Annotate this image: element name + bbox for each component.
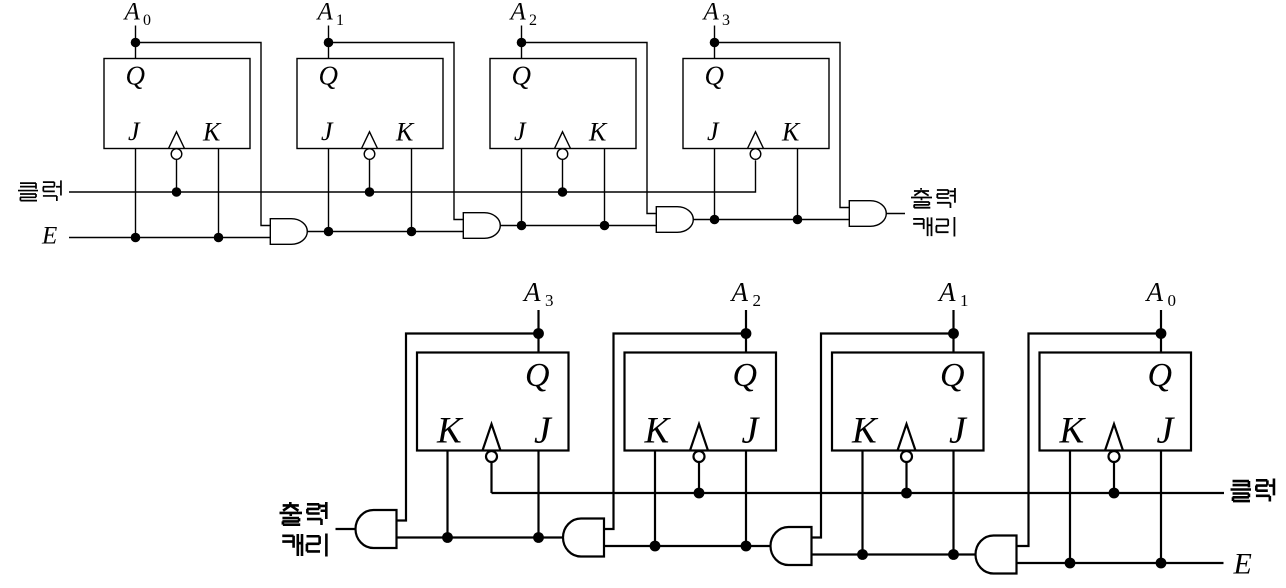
junction J input FF1 (top row) [324,227,334,237]
svg-text:K: K [436,411,464,452]
AND gate B3 (bottom row, mirrored) [771,527,812,565]
AND gate B1 (bottom row, mirrored) [356,510,397,548]
junction K input FF A2 (bottom row) [650,541,661,552]
clock bubble of FF2 (top row) [557,149,568,160]
flip-flop FF A3 box (bottom row) [417,353,569,451]
wire clock terminal up to FF A3 bubble (bottom row) [490,462,492,493]
svg-text:1: 1 [960,291,969,310]
flip-flop FF A2 box (bottom row) [625,353,777,451]
node A3 junction (bottom row) [533,328,544,339]
wire A1 output stub (bottom row) [952,310,954,353]
svg-text:Q: Q [733,357,758,394]
junction clock at FF2 bubble [558,187,568,197]
junction J input FF0 (top row) [131,233,141,243]
clock bubble of FF A0 (bottom row) [1109,451,1120,462]
wire clock line (top row) [69,160,756,192]
junction K input FF3 (top row) [793,215,803,225]
node A1 junction (top row) [324,38,334,48]
svg-text:A: A [123,0,141,26]
clock edge triangle of FF A1 (bottom row) [898,424,916,451]
svg-text:J: J [128,117,141,146]
wire J input column FF A0 (bottom row) [1160,451,1162,564]
AND gate B2 (bottom row, mirrored) [563,519,604,557]
wire K input column FF A0 (bottom row) [1069,451,1071,564]
junction K input FF0 (top row) [214,233,224,243]
svg-text:J: J [514,117,527,146]
wire K input column FF0 (top row) [218,149,220,238]
svg-text:Q: Q [1148,357,1173,394]
junction clock at FF0 bubble [172,187,182,197]
wire J input column FF A3 (bottom row) [537,451,539,538]
svg-text:K: K [851,411,879,452]
wire K input column FF A3 (bottom row) [446,451,448,538]
svg-text:Q: Q [705,61,725,91]
wire Q feedback FF A2 to AND gate B2 (bottom row) [604,334,746,530]
label 캐리 (carry, top-right) [913,217,931,236]
label 출력 (output, top-right) [911,188,932,208]
svg-text:A: A [1145,277,1164,307]
svg-text:Q: Q [126,61,146,91]
wire J input column FF3 (top row) [714,149,716,220]
svg-text:J: J [1157,410,1176,452]
wire Q feedback FF2 to AND gate 3 (top row) [522,43,657,214]
svg-text:A: A [316,0,334,26]
wire A3 output stub (bottom row) [537,310,539,353]
node A3 junction (top row) [710,38,720,48]
wire A0 output stub (top row) [135,26,137,59]
svg-text:J: J [321,117,334,146]
clock edge triangle of FF A0 (bottom row) [1105,424,1123,451]
wire A0 output stub (bottom row) [1160,310,1162,353]
svg-text:K: K [644,411,672,452]
wire G2 output to G3 [500,225,656,227]
wire E line (bottom row) [1017,562,1224,564]
clock edge triangle of FF A2 (bottom row) [690,424,708,451]
svg-text:A: A [509,0,527,26]
AND gate G3 (top row) [656,207,693,233]
wire A2 output stub (top row) [521,26,523,59]
wire J input column FF A2 (bottom row) [745,451,747,547]
svg-text:Q: Q [525,357,550,394]
wire J input column FF0 (top row) [135,149,137,238]
wire Q feedback FF3 to AND gate 4 (top row) [715,43,850,208]
wire G1 output to G2 [307,231,463,233]
svg-text:3: 3 [722,12,730,29]
clock edge triangle of FF2 (top row) [555,132,571,149]
svg-text:K: K [588,118,608,147]
svg-text:Q: Q [512,61,532,91]
wire bubble of FF A1 to clock line [905,462,907,493]
wire Q feedback FF A1 to AND gate B3 (bottom row) [812,334,954,538]
svg-text:A: A [522,277,541,307]
flip-flop FF A1 box (bottom row) [832,353,984,451]
node A1 junction (bottom row) [948,328,959,339]
clock edge triangle of FF3 (top row) [748,132,764,149]
junction J input FF3 (top row) [710,215,720,225]
junction J input FF A3 (bottom row) [533,532,544,543]
clock bubble of FF A2 (bottom row) [694,451,705,462]
flip-flop FF1 box (top row) [297,59,443,149]
junction clock at FF A0 bubble [1109,488,1120,499]
wire J input column FF1 (top row) [328,149,330,232]
svg-text:Q: Q [319,61,339,91]
clock bubble of FF0 (top row) [171,149,182,160]
clock bubble of FF A3 (bottom row) [486,451,497,462]
wire B2 output to B1 [397,536,564,538]
junction K input FF2 (top row) [600,221,610,231]
svg-text:K: K [1059,411,1087,452]
svg-text:Q: Q [940,357,965,394]
flip-flop FF0 box (top row) [104,59,250,149]
wire A3 output stub (top row) [714,26,716,59]
wire K input column FF2 (top row) [604,149,606,226]
wire K input column FF A2 (bottom row) [654,451,656,547]
junction J input FF A1 (bottom row) [948,549,959,560]
AND gate G1 (top row) [270,219,307,245]
svg-text:J: J [949,410,968,452]
node A2 junction (bottom row) [741,328,752,339]
svg-text:0: 0 [143,12,151,29]
wire B3 output to B2 [604,545,771,547]
clock bubble of FF3 (top row) [750,149,761,160]
wire bubble of FF A0 to clock line [1113,462,1115,493]
wire bubble of FF1 to clock line [369,159,371,192]
svg-text:1: 1 [336,12,344,29]
wire A1 output stub (top row) [328,26,330,59]
wire E line (top row) [69,237,270,239]
svg-text:3: 3 [545,291,554,310]
svg-text:J: J [707,117,720,146]
wire J input column FF A1 (bottom row) [952,451,954,555]
svg-text:J: J [742,410,761,452]
svg-text:K: K [781,118,801,147]
label 클럭 (clock, bottom-right) [1231,481,1252,501]
clock edge triangle of FF0 (top row) [169,132,185,149]
clock edge triangle of FF A3 (bottom row) [483,424,501,451]
wire bubble of FF2 to clock line [562,159,564,192]
junction clock at FF A1 bubble [901,488,912,499]
wire K input column FF A1 (bottom row) [861,451,863,555]
clock bubble of FF A1 (bottom row) [901,451,912,462]
wire G4 output carry (top row) [886,213,905,215]
svg-text:0: 0 [1168,291,1177,310]
junction clock at FF A2 bubble [694,488,705,499]
flip-flop FF2 box (top row) [490,59,636,149]
label 클럭 (clock, top-left) [18,183,38,200]
AND gate B4 (bottom row, mirrored) [976,536,1017,574]
junction J input FF A0 (bottom row) [1156,558,1167,569]
wire Q feedback FF A0 to AND gate B4 (bottom row) [1017,334,1162,547]
svg-text:E: E [1233,548,1252,581]
svg-text:2: 2 [753,291,762,310]
svg-text:K: K [202,118,222,147]
wire A2 output stub (bottom row) [745,310,747,353]
svg-text:K: K [395,118,415,147]
wire K input column FF1 (top row) [411,149,413,232]
junction J input FF2 (top row) [517,221,527,231]
svg-text:A: A [702,0,720,26]
junction K input FF A3 (bottom row) [442,532,453,543]
junction K input FF1 (top row) [407,227,417,237]
svg-text:A: A [730,277,749,307]
wire J input column FF2 (top row) [521,149,523,226]
label 캐리 (carry, bottom-left) [282,534,302,556]
AND gate G4 (top row) [849,201,886,227]
node A0 junction (bottom row) [1156,328,1167,339]
junction K input FF A1 (bottom row) [857,549,868,560]
node A2 junction (top row) [517,38,527,48]
wire Q feedback FF0 to AND gate 1 (top row) [136,43,271,226]
clock edge triangle of FF1 (top row) [362,132,378,149]
svg-text:E: E [41,223,57,250]
wire G3 output to G4 [693,219,849,221]
wire bubble of FF0 to clock line [176,159,178,192]
node A0 junction (top row) [131,38,141,48]
wire bubble of FF A2 to clock line [698,462,700,493]
wire B1 output to carry label (bottom row) [336,528,356,530]
svg-text:J: J [534,410,553,452]
junction J input FF A2 (bottom row) [741,541,752,552]
svg-text:A: A [937,277,956,307]
flip-flop FF3 box (top row) [683,59,829,149]
wire Q feedback FF1 to AND gate 2 (top row) [329,43,464,220]
AND gate G2 (top row) [463,213,500,239]
flip-flop FF A0 box (bottom row) [1040,353,1192,451]
label 출력 (output, bottom-left) [280,502,303,525]
wire clock line (bottom row) [492,492,1225,494]
wire B4 output to B3 [812,553,976,555]
wire K input column FF3 (top row) [797,149,799,220]
clock bubble of FF1 (top row) [364,149,375,160]
wire Q feedback FF A3 to AND gate B1 (bottom row) [397,334,539,521]
junction K input FF A0 (bottom row) [1065,558,1076,569]
junction clock at FF1 bubble [365,187,375,197]
svg-text:2: 2 [529,12,537,29]
